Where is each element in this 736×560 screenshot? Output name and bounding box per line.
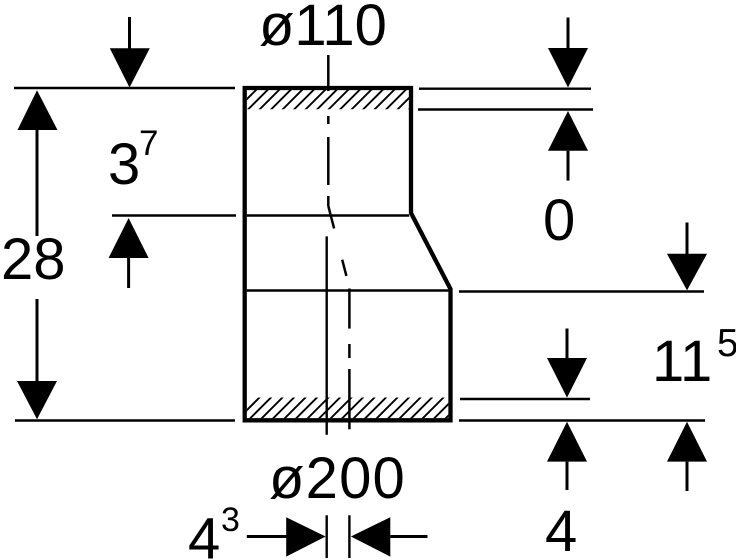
hatch band bottom (section hatching) [238, 397, 479, 419]
arrow down at x=37 pointing to y=420.5 (28 dim bottom) [17, 299, 57, 419]
arrow right at y=536.5 pointing to x=326.7 (4|3 dim left) [247, 517, 326, 556]
arrow left at y=536.5 pointing to x=349.4 (4|3 dim right) [351, 517, 428, 556]
centerline ø200 (dash-dot vertical at x=349.4) [348, 289, 351, 430]
internal shoulder line at y=290 (cone end line) [247, 289, 449, 291]
svg-text:3: 3 [221, 501, 240, 539]
arrow down at x=129.5 pointing to y=88 (3|7 dim top) [110, 17, 150, 88]
extension tick of bottom centerline for 4|3 dimension (x=349.4) [348, 515, 350, 558]
arrow up at x=687 pointing to y=420.5 (11|5 dim bottom) [667, 422, 707, 491]
hatch band top (section hatching) [236, 89, 430, 110]
svg-text:5: 5 [717, 322, 736, 365]
svg-text:4: 4 [188, 507, 220, 560]
svg-text:4: 4 [545, 499, 577, 560]
extension line top right upper (y=88.7) [419, 87, 591, 89]
body outline of reducer fitting (thick section outline) [245, 88, 451, 420]
svg-text:11: 11 [652, 329, 712, 394]
arrow down at x=567 pointing to y=399 (4 dim top) [547, 329, 587, 398]
extension line right middle (y=291.5) [459, 290, 704, 292]
svg-text:ø110: ø110 [259, 0, 387, 58]
svg-text:3: 3 [108, 132, 140, 197]
svg-text:ø200: ø200 [269, 446, 406, 511]
extension line top right lower (y=109.5) [418, 108, 593, 110]
extension line bottom right (y=420.5) [459, 419, 705, 421]
centerline jog (slanted dash-dot from top center to bottom center) [328, 206, 346, 276]
arrow down at x=687 pointing to y=291.5 (11|5 dim top) [667, 223, 707, 291]
arrow down at x=568 pointing to y=88.7 (0 dim top) [548, 18, 588, 88]
arrow up at x=567 pointing to y=420.5 (4 dim bottom) [547, 422, 587, 490]
extension line right lower (y=399) [460, 398, 590, 400]
extension line bottom left (y=420.5) [15, 419, 235, 421]
extension line top left (y=88) [14, 87, 235, 89]
centerline ø110 (dash-dot vertical at x=328.3) [327, 55, 330, 206]
svg-text:7: 7 [139, 124, 158, 163]
svg-text:28: 28 [1, 227, 66, 292]
arrow up at x=37 pointing to y=88 (28 dim top) [18, 90, 58, 236]
svg-text:0: 0 [543, 188, 575, 253]
internal shoulder line at y=215 (socket depth line) [247, 214, 409, 216]
arrow up at x=568 pointing to y=109.5 (0 dim bottom) [548, 111, 588, 181]
arrow up at x=128.6 pointing to y=215.5 (3|7 dim bottom) [109, 218, 149, 288]
extension line of top centerline carried down (x=326.7) [326, 236, 328, 558]
extension line y=215.5 left [112, 214, 236, 216]
